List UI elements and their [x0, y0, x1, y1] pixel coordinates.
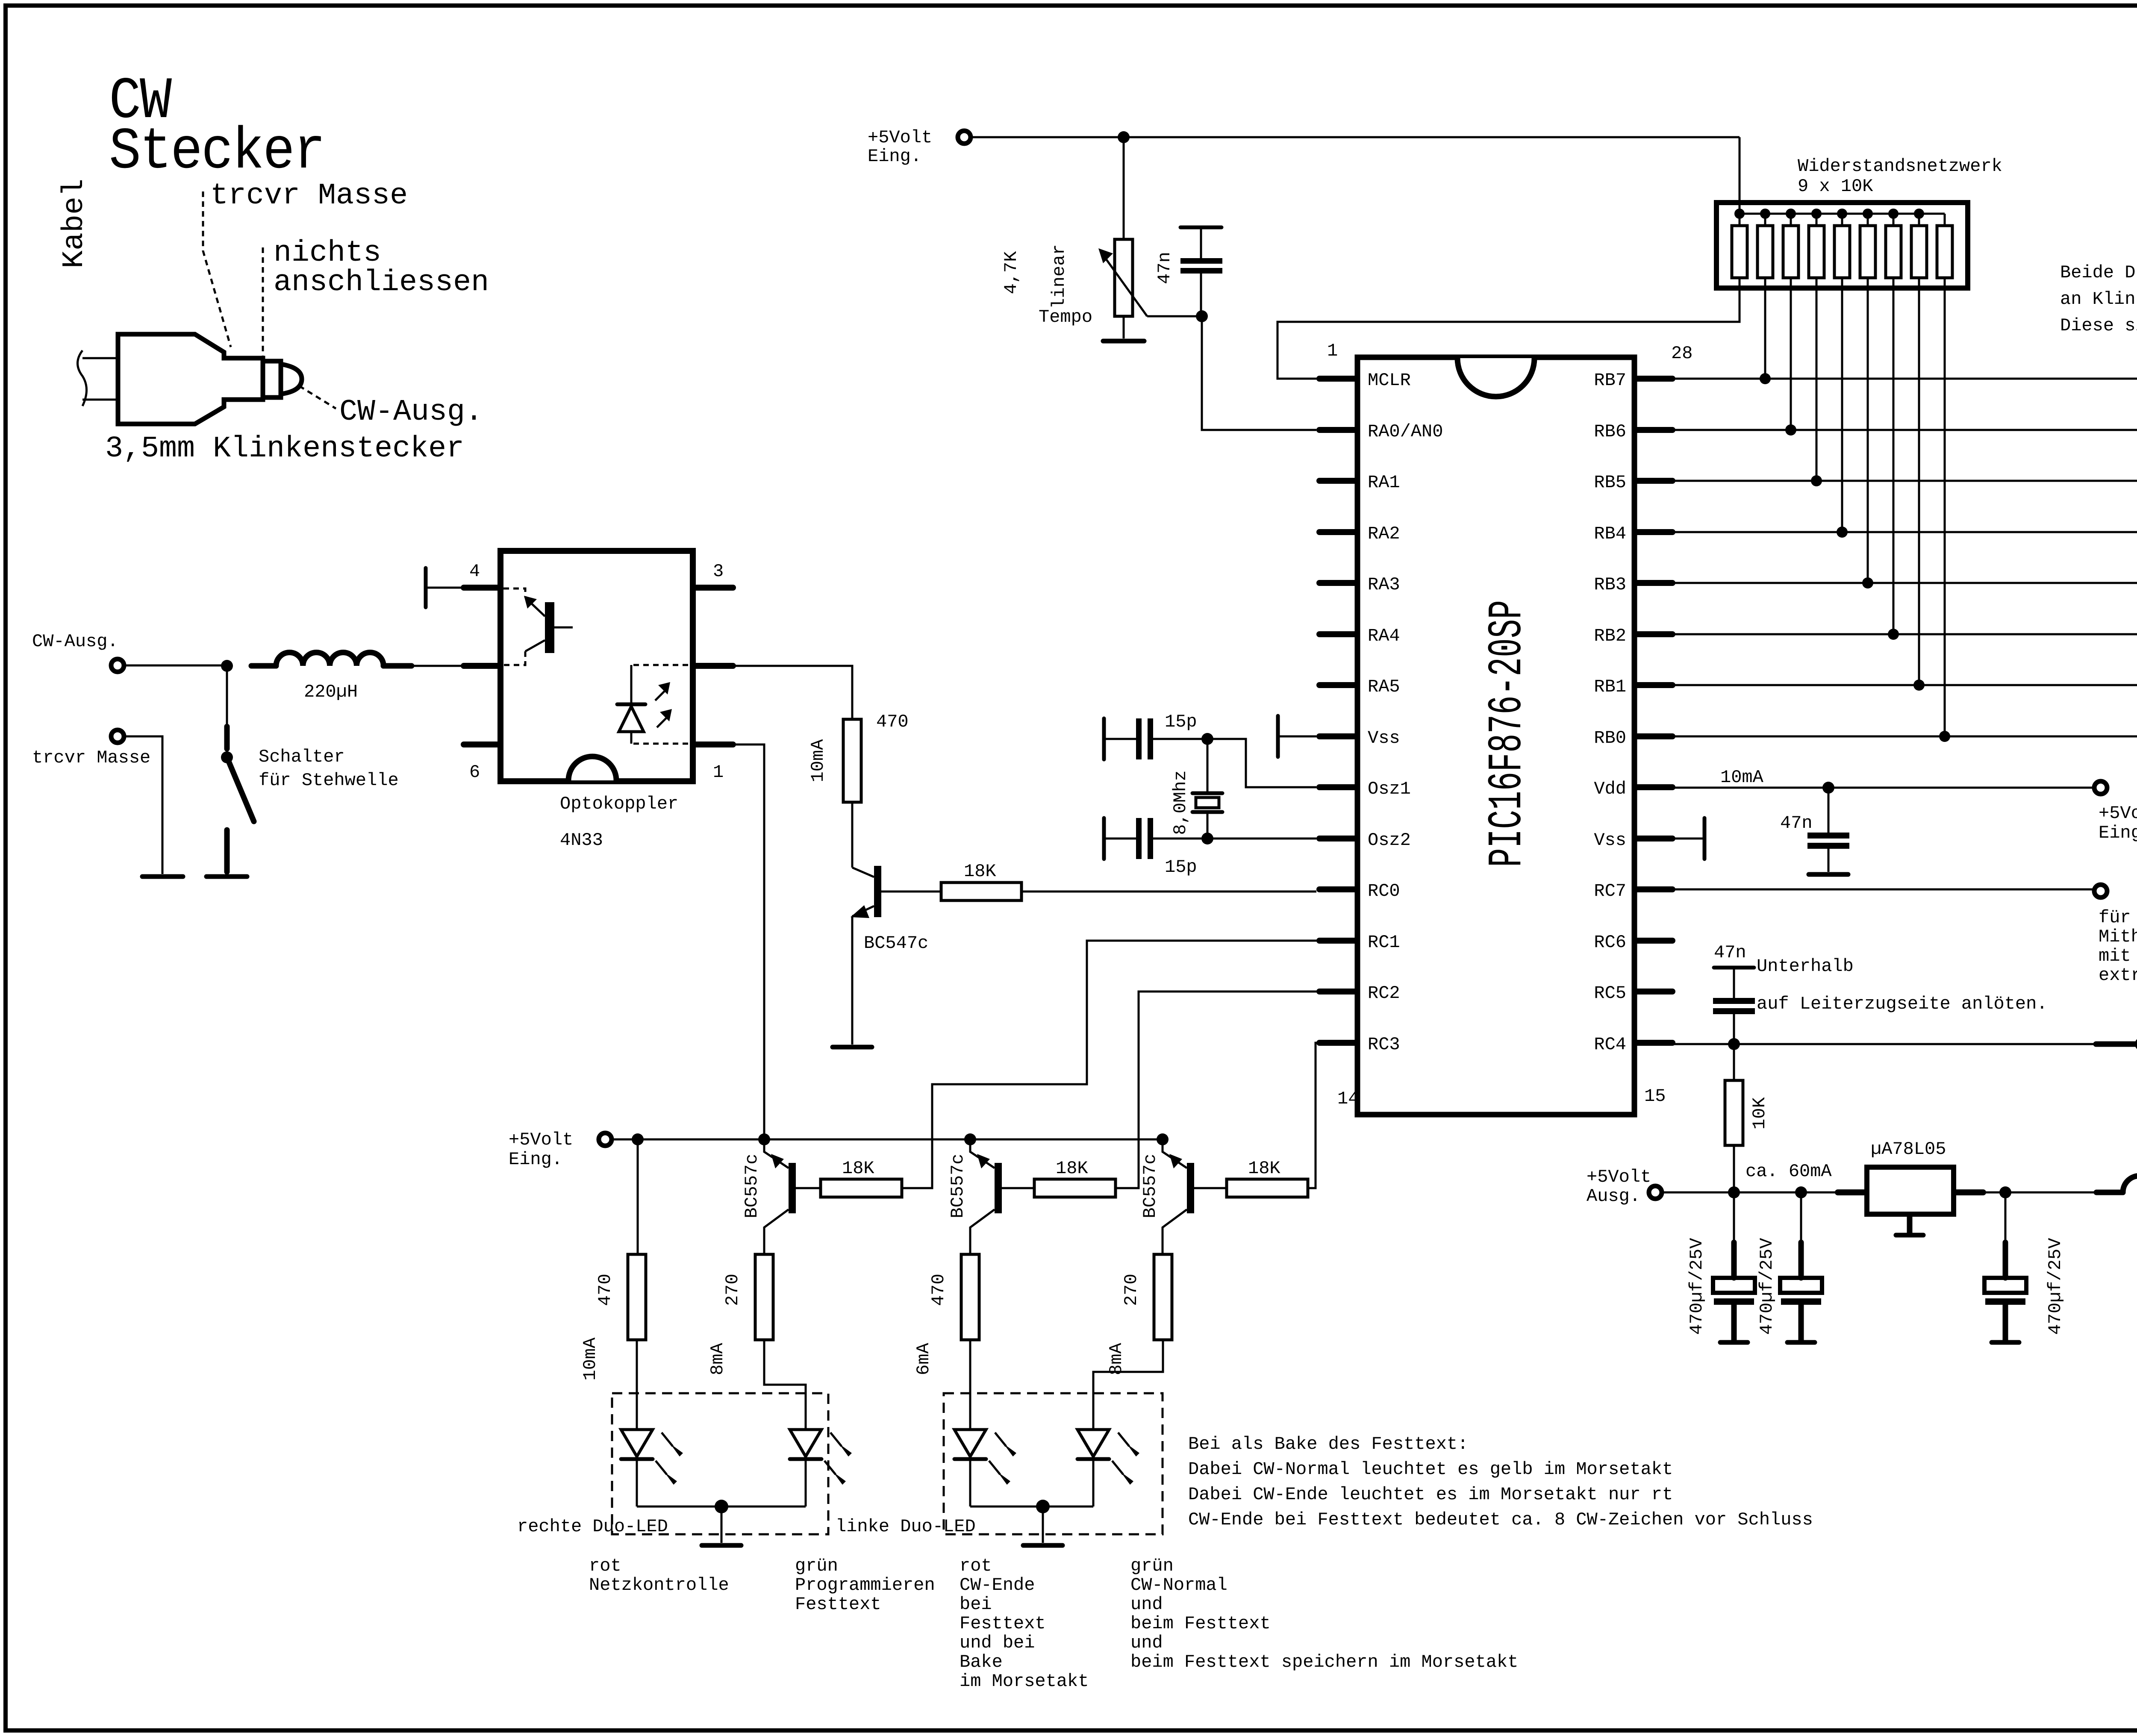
- wire RB line to inductor y=1006: [1672, 429, 2137, 431]
- svg-text:RB5: RB5: [1594, 472, 1626, 493]
- pin stub left RA5: [1319, 682, 1355, 688]
- resistor RN1-1 body: [1732, 226, 1747, 278]
- wire RN1-8 to RB1 line: [1918, 278, 1920, 685]
- switch S2 pivot dot: [2135, 1037, 2137, 1051]
- svg-text:470: 470: [876, 712, 909, 732]
- wire R10 to LED4 jog: [1093, 1340, 1163, 1430]
- capacitor C2 plate A: [1136, 718, 1142, 759]
- pin stub left RA3: [1319, 580, 1355, 586]
- svg-text:+5Volt: +5Volt: [868, 127, 932, 148]
- svg-text:ca. 60mA: ca. 60mA: [1746, 1161, 1832, 1182]
- svg-text:BC557c: BC557c: [1140, 1153, 1160, 1218]
- node dot RB2: [1888, 629, 1899, 640]
- switch S1 blade: [227, 757, 254, 821]
- resistor 18K body (Q3 base): [1034, 1179, 1116, 1197]
- pin stub right RB43: [1637, 529, 1672, 535]
- capacitor C5 47n ground bar: [1714, 966, 1754, 970]
- cable break squiggle: [78, 350, 87, 406]
- transistor Q3 base bar: [995, 1163, 1002, 1213]
- transistor Q4 base bar: [1187, 1163, 1194, 1213]
- resistor 470 body (LED): [961, 1254, 979, 1340]
- crystal X1 top lead: [1207, 739, 1209, 792]
- pin stub right RB61: [1637, 427, 1672, 433]
- node rail 10K junction: [1728, 1186, 1740, 1198]
- dashed box rechte Duo-LED: [612, 1393, 828, 1534]
- node dot RB6: [1785, 424, 1796, 435]
- ground C8: [1992, 1340, 2019, 1345]
- svg-text:extra Schaltung: extra Schaltung: [2099, 965, 2137, 986]
- wire RB2 to Text4 switch: [1672, 633, 2137, 636]
- wire 10K to +5V Ausg rail: [1733, 1145, 1735, 1192]
- svg-text:Widerstandsnetzwerk: Widerstandsnetzwerk: [1798, 156, 2002, 177]
- node crystal top: [1201, 733, 1213, 745]
- wire Vss left to ground: [1279, 736, 1316, 738]
- svg-text:Schalter: Schalter: [259, 747, 345, 767]
- svg-text:grün: grün: [795, 1556, 838, 1576]
- node rechte cathode dot: [715, 1500, 728, 1513]
- svg-text:Eing.: Eing.: [868, 146, 921, 167]
- diode LED1 rot cathode bar: [621, 1457, 653, 1461]
- wire R5 to LED1: [636, 1340, 638, 1430]
- wire rail to R5 470: [637, 1139, 639, 1254]
- svg-text:mit: mit: [2099, 946, 2131, 966]
- LED light arrows: [655, 691, 665, 700]
- optocoupler U2 4N33 box: [500, 551, 693, 781]
- transistor Q1 emitter diagonal: [852, 906, 874, 916]
- wire RN1-7 to RB2 line: [1893, 278, 1895, 634]
- svg-text:Vss: Vss: [1594, 830, 1626, 850]
- capacitor C8 bottom stem: [2003, 1305, 2008, 1341]
- wire RB0 to Text6 switch: [1672, 736, 2137, 738]
- svg-text:6: 6: [469, 762, 480, 783]
- jack cable leads: [82, 358, 118, 400]
- transistor Q2 base bar: [789, 1163, 796, 1213]
- resistor RN1-6 body: [1860, 226, 1875, 278]
- svg-text:270: 270: [1121, 1274, 1142, 1306]
- terminal Mithoerton: [2094, 885, 2107, 897]
- wire RB4 to Text2 switch: [1672, 531, 2137, 533]
- transistor Q1 base bar: [874, 866, 881, 917]
- capacitor C8 top stem: [2003, 1242, 2008, 1278]
- transistor Q1 emitter wire: [851, 916, 854, 1045]
- resistor 18K body (Q4 base): [1227, 1179, 1308, 1197]
- svg-text:18K: 18K: [842, 1158, 874, 1179]
- resistor R2 470 body: [843, 719, 861, 802]
- resistor RN1-7 body: [1886, 226, 1901, 278]
- svg-text:Bake: Bake: [960, 1652, 1003, 1672]
- svg-text:Dabei CW-Ende leuchtet es im M: Dabei CW-Ende leuchtet es im Morsetakt n…: [1188, 1484, 1673, 1505]
- wire RC7 to Mithoerton terminal: [1672, 889, 2094, 891]
- capacitor C3 stem: [1106, 838, 1136, 840]
- svg-text:RA4: RA4: [1368, 626, 1400, 646]
- svg-text:BC547c: BC547c: [864, 933, 928, 953]
- leader dashed nichts anschliessen: [262, 247, 264, 358]
- diode LED2 gruen cathode bar: [790, 1457, 821, 1461]
- svg-text:im Morsetakt: im Morsetakt: [960, 1671, 1089, 1692]
- svg-text:9 x 10K: 9 x 10K: [1798, 176, 1873, 197]
- svg-text:anschliessen: anschliessen: [274, 266, 489, 300]
- wire R8 to LED3: [969, 1340, 971, 1430]
- pin stub left RA1: [1319, 478, 1355, 484]
- pin stub left Osz2: [1319, 836, 1355, 842]
- ground C6: [1720, 1340, 1748, 1345]
- resistor 470 body (LED): [628, 1254, 646, 1340]
- diode LED1 rot light arrow 1: [662, 1433, 673, 1446]
- ground C4: [1809, 872, 1848, 877]
- wire RN1-9 top: [1944, 214, 1946, 226]
- svg-text:MCLR: MCLR: [1368, 370, 1411, 391]
- svg-text:Ausg.: Ausg.: [1587, 1186, 1640, 1206]
- node bus dot 8: [1914, 209, 1924, 219]
- pin 2 stub: [464, 663, 500, 669]
- ground linke Duo-LED: [1023, 1543, 1063, 1548]
- svg-text:PIC16F876-20SP: PIC16F876-20SP: [1481, 600, 1535, 867]
- svg-text:beim Festtext: beim Festtext: [1130, 1613, 1271, 1634]
- wire RN1-3 to RB6 line: [1790, 278, 1792, 430]
- svg-text:+5Volt: +5Volt: [1587, 1167, 1651, 1187]
- svg-text:3: 3: [713, 561, 724, 582]
- IC U1 notch: [1457, 358, 1534, 397]
- pin stub right RC710: [1637, 886, 1672, 892]
- svg-text:8,0Mhz: 8,0Mhz: [1170, 770, 1191, 835]
- svg-text:Dabei CW-Normal leuchtet es ge: Dabei CW-Normal leuchtet es gelb im Mors…: [1188, 1459, 1673, 1480]
- capacitor C4 47n stem: [1828, 788, 1830, 833]
- capacitor C5 wire to RC4: [1733, 1014, 1735, 1044]
- svg-text:RB0: RB0: [1594, 728, 1626, 748]
- potentiometer P1 4,7K body: [1115, 239, 1133, 316]
- svg-text:BC557c: BC557c: [948, 1153, 968, 1218]
- wire RN1-1 bottom to MCLR: [1277, 278, 1740, 379]
- terminal CW-Ausg.: [111, 659, 124, 672]
- node Vdd cap junction: [1822, 782, 1834, 794]
- svg-text:Kabel: Kabel: [58, 179, 91, 268]
- node +5V rail emitter dot Q3: [964, 1133, 976, 1145]
- svg-text:RC1: RC1: [1368, 932, 1400, 953]
- regulator U3 uA78L05 left stub: [1838, 1189, 1864, 1195]
- svg-text:18K: 18K: [1056, 1158, 1088, 1179]
- svg-text:15p: 15p: [1165, 712, 1197, 732]
- svg-text:+5Volt: +5Volt: [2099, 803, 2137, 824]
- phototransistor base bar: [545, 602, 554, 653]
- regulator U3 body: [1867, 1167, 1954, 1214]
- svg-text:Osz1: Osz1: [1368, 779, 1411, 799]
- wire RN1-5 top: [1841, 214, 1843, 226]
- svg-text:trcvr Masse: trcvr Masse: [32, 747, 150, 768]
- svg-text:rot: rot: [589, 1556, 621, 1576]
- resistor RN1-4 body: [1809, 226, 1824, 278]
- switch S1 fixed bar: [224, 727, 230, 749]
- phototransistor collector: [525, 640, 545, 651]
- transistor Q1 BC547c collector diagonal: [852, 868, 874, 877]
- capacitor C5 plate A: [1713, 998, 1755, 1004]
- svg-text:RC0: RC0: [1368, 881, 1400, 901]
- svg-text:RA0/AN0: RA0/AN0: [1368, 421, 1443, 442]
- node bus dot 1: [1734, 209, 1745, 219]
- regulator U3 ground stem: [1907, 1217, 1913, 1233]
- pin stub right Vss9: [1637, 836, 1672, 842]
- wire junction to potentiometer: [1123, 137, 1125, 239]
- capacitor C8 470uf wire: [2005, 1192, 2007, 1242]
- capacitor C7 plate A: [1780, 1278, 1822, 1293]
- phototransistor emitter dashed wire: [503, 588, 525, 597]
- wire base to 18K: [881, 891, 941, 893]
- terminal trcvr Masse: [111, 730, 124, 743]
- pin stub right RB16: [1637, 682, 1672, 688]
- node dot RB5: [1811, 475, 1822, 486]
- ground potentiometer: [1103, 339, 1144, 344]
- svg-text:linke Duo-LED: linke Duo-LED: [836, 1516, 976, 1537]
- svg-text:14: 14: [1337, 1089, 1359, 1109]
- svg-text:Vdd: Vdd: [1594, 779, 1626, 799]
- node junction at potentiometer: [1118, 131, 1130, 143]
- svg-text:10mA: 10mA: [1720, 767, 1764, 788]
- wire Q4 base to 18K: [1194, 1187, 1227, 1189]
- wire node to Osz1: [1207, 739, 1316, 787]
- potentiometer wiper arrow: [1106, 259, 1147, 316]
- resistor RN1-9 body: [1937, 226, 1952, 278]
- svg-text:rechte Duo-LED: rechte Duo-LED: [517, 1516, 668, 1537]
- diode LED2 gruen light arrow 2: [824, 1461, 836, 1474]
- svg-text:470µf/25V: 470µf/25V: [1687, 1238, 1707, 1335]
- wire R6 to LED2 jog: [764, 1340, 806, 1430]
- node +5V rail emitter dot Q2: [758, 1133, 770, 1145]
- svg-text:auf Leiterzugseite anlöten.: auf Leiterzugseite anlöten.: [1757, 994, 2048, 1014]
- svg-text:470: 470: [928, 1274, 949, 1306]
- svg-text:und bei: und bei: [960, 1633, 1035, 1653]
- svg-text:CW-Ende bei Festtext bedeutet: CW-Ende bei Festtext bedeutet ca. 8 CW-Z…: [1188, 1509, 1813, 1530]
- wire RB3 to Text3 switch: [1672, 582, 2137, 584]
- pin stub right RB52: [1637, 478, 1672, 484]
- node dot RB1: [1913, 680, 1925, 691]
- capacitor C2 stem: [1106, 738, 1136, 740]
- svg-text:RB2: RB2: [1594, 626, 1626, 646]
- diode LED4 gruen light arrow 2: [1112, 1461, 1123, 1474]
- svg-text:und: und: [1130, 1594, 1163, 1615]
- svg-text:470µf/25V: 470µf/25V: [1757, 1238, 1777, 1335]
- resistor 18K body (Q2 base): [821, 1179, 902, 1197]
- pin stub right RC512: [1637, 989, 1672, 995]
- capacitor C5 stem: [1733, 969, 1735, 998]
- wire RN1-9 to RB0 line: [1944, 278, 1946, 736]
- ground switch S1: [206, 874, 247, 879]
- diode LED4 gruen cathode bar: [1077, 1457, 1109, 1461]
- capacitor C6 plate A: [1713, 1278, 1755, 1293]
- wire RN1-6 to RB3 line: [1867, 278, 1869, 583]
- crystal X1 bottom lead: [1207, 813, 1209, 839]
- diode LED3 rot light arrow 1: [995, 1433, 1006, 1446]
- svg-text:Stecker: Stecker: [109, 119, 324, 185]
- svg-text:RC2: RC2: [1368, 983, 1400, 1003]
- pin stub left Vss: [1319, 733, 1355, 739]
- wire RN1-6 top: [1867, 214, 1869, 226]
- LED cathode stem: [630, 665, 633, 703]
- wire pin4 to ground bar: [427, 587, 464, 589]
- wire resistor to collector: [851, 802, 854, 868]
- svg-text:10mA: 10mA: [580, 1337, 600, 1381]
- node dot RB7: [1760, 373, 1771, 384]
- LED anode stem: [630, 732, 633, 744]
- wire +5V into network common: [1739, 137, 1741, 226]
- diode LED1 rot triangle: [621, 1430, 653, 1456]
- wire +5V LED rail: [612, 1139, 1163, 1141]
- node rail cap3 junction: [1999, 1186, 2011, 1198]
- resistor R4 10K wire from RC4: [1733, 1044, 1735, 1080]
- inductor L4 220uH stubs: [2096, 1190, 2137, 1195]
- ground rechte Duo-LED: [702, 1543, 741, 1548]
- diode LED2 gruen cathode wire: [805, 1461, 807, 1506]
- capacitor C7 470uf wire: [1800, 1192, 1802, 1242]
- svg-text:beim Festtext speichern im Mor: beim Festtext speichern im Morsetakt: [1130, 1652, 1518, 1672]
- switch S1 lower contact: [224, 830, 230, 872]
- wire RB1 to Text5 switch: [1672, 684, 2137, 686]
- pin 6 stub: [464, 741, 500, 747]
- svg-text:RB4: RB4: [1594, 524, 1626, 544]
- node bus dot 2: [1760, 209, 1770, 219]
- diode LED1 rot light arrow 2: [656, 1461, 667, 1474]
- ground C7: [1787, 1340, 1815, 1345]
- transistor Q3 collector: [970, 1209, 995, 1254]
- switch S2 Programmier stub: [2096, 1042, 2135, 1047]
- resistor network RN1 box: [1716, 203, 1968, 288]
- pin stub left RC2: [1319, 989, 1355, 995]
- svg-text:Eing.: Eing.: [2099, 823, 2137, 843]
- svg-text:28: 28: [1671, 343, 1693, 364]
- wire potentiometer bottom: [1123, 316, 1125, 338]
- svg-text:Mithörton: Mithörton: [2099, 927, 2137, 947]
- pin 1 stub: [693, 741, 733, 747]
- svg-text:für Stehwelle: für Stehwelle: [259, 770, 399, 791]
- svg-text:470: 470: [595, 1274, 615, 1306]
- node bus dot 6: [1863, 209, 1873, 219]
- switch S1 pivot dot: [221, 751, 233, 763]
- resistor R3 18K body: [941, 883, 1021, 900]
- svg-text:Optokoppler: Optokoppler: [560, 794, 678, 814]
- pin stub left RC3: [1319, 1040, 1355, 1046]
- node RC4 junction: [1728, 1038, 1740, 1050]
- node bus dot 3: [1786, 209, 1796, 219]
- wire C1 to wiper node: [1200, 274, 1202, 316]
- svg-text:Eing.: Eing.: [509, 1149, 562, 1170]
- transistor Q3 emitter arrow: [977, 1154, 990, 1168]
- capacitor C3 15p ground T-bar: [1102, 818, 1106, 859]
- ground Q1 emitter: [833, 1045, 872, 1050]
- svg-text:Bei als Bake des Festtext:: Bei als Bake des Festtext:: [1188, 1434, 1468, 1454]
- connector J1 3,5mm jack plug body: [118, 334, 263, 424]
- node wiper junction: [1196, 310, 1208, 322]
- svg-text:RA2: RA2: [1368, 524, 1400, 544]
- diode LED4 gruen triangle: [1077, 1430, 1109, 1456]
- svg-text:Festtext: Festtext: [960, 1613, 1046, 1634]
- LED dashed enclosure: [631, 665, 688, 744]
- svg-text:CW-Normal: CW-Normal: [1130, 1575, 1227, 1595]
- jack ring segment: [263, 361, 281, 397]
- svg-text:8mA: 8mA: [1106, 1342, 1127, 1375]
- pin stub right RB34: [1637, 580, 1672, 586]
- resistor RN1-5 body: [1834, 226, 1850, 278]
- svg-text:RB7: RB7: [1594, 370, 1626, 391]
- svg-text:linear: linear: [1049, 244, 1069, 309]
- node bus dot 5: [1837, 209, 1847, 219]
- wire RN1-3 top: [1790, 214, 1792, 226]
- diode LED3 rot cathode wire: [969, 1461, 971, 1506]
- wire linke cathode to ground: [1042, 1506, 1044, 1543]
- capacitor C3 plate B: [1148, 818, 1153, 859]
- svg-text:RA1: RA1: [1368, 472, 1400, 493]
- diode LED4 gruen cathode wire: [1092, 1461, 1095, 1506]
- svg-text:47n: 47n: [1714, 942, 1746, 963]
- node rail cap2 junction: [1795, 1186, 1807, 1198]
- svg-text:Vss: Vss: [1368, 728, 1400, 748]
- pin stub right RB07: [1637, 733, 1672, 739]
- ground regulator: [1896, 1233, 1923, 1238]
- svg-text:trcvr Masse: trcvr Masse: [210, 179, 408, 213]
- wire rechte cathode to ground: [721, 1506, 723, 1543]
- wire RN1-4 top: [1816, 214, 1818, 226]
- pin stub left RA2: [1319, 529, 1355, 535]
- wire Q2 base to 18K: [796, 1187, 821, 1189]
- svg-text:an Klinkenbuchse anlöten.: an Klinkenbuchse anlöten.: [2060, 289, 2137, 309]
- svg-text:CW-Ausg.: CW-Ausg.: [32, 631, 118, 652]
- wire Q3 base to 18K: [1002, 1187, 1034, 1189]
- dashed box linke Duo-LED: [944, 1393, 1163, 1534]
- svg-text:RB6: RB6: [1594, 421, 1626, 442]
- inductor L1 220uH humps: [276, 653, 383, 666]
- pin stub left RA0-AN0: [1319, 427, 1355, 433]
- diode LED3 rot light arrow 2: [989, 1461, 1000, 1474]
- svg-text:47n: 47n: [1780, 813, 1813, 833]
- pin 4 stub: [464, 585, 500, 591]
- capacitor C1 plate B: [1180, 268, 1222, 274]
- svg-text:6mA: 6mA: [913, 1342, 934, 1375]
- regulator U3 right stub: [1956, 1189, 1983, 1195]
- wire regulator to inductor: [1983, 1192, 2096, 1194]
- resistor RN1-2 body: [1757, 226, 1773, 278]
- jack tip: [281, 364, 302, 394]
- wire trcvr Masse to ground: [124, 736, 162, 874]
- svg-text:RA3: RA3: [1368, 574, 1400, 595]
- svg-text:Festtext: Festtext: [795, 1594, 881, 1615]
- ground trcvr Masse: [142, 874, 183, 879]
- wire RC3 to 18K base R9: [1304, 1043, 1319, 1188]
- pin stub right RC413: [1637, 1040, 1672, 1046]
- node rail to R5 470 dot: [632, 1133, 644, 1145]
- svg-text:220µH: 220µH: [304, 682, 358, 702]
- svg-text:Osz2: Osz2: [1368, 830, 1411, 850]
- wire linke LED cathodes join: [970, 1506, 1093, 1508]
- node bus dot 7: [1888, 209, 1899, 219]
- capacitor C6 plate B: [1714, 1298, 1754, 1305]
- svg-text:47n: 47n: [1154, 252, 1175, 284]
- capacitor C6 bottom stem: [1731, 1305, 1737, 1341]
- wire RN1-2 top: [1764, 214, 1766, 226]
- svg-text:10mA: 10mA: [808, 739, 828, 783]
- resistor RN1-3 body: [1783, 226, 1798, 278]
- pin stub left RC0: [1319, 886, 1355, 892]
- diode LED3 rot triangle: [954, 1430, 986, 1456]
- node dot RB0: [1939, 731, 1950, 742]
- node bus dot 4: [1811, 209, 1822, 219]
- svg-text:RB1: RB1: [1594, 677, 1626, 697]
- wire RN1-2 to RB7 line: [1764, 278, 1766, 379]
- phototransistor emitter arrow: [529, 601, 545, 616]
- svg-text:3,5mm Klinkenstecker: 3,5mm Klinkenstecker: [105, 432, 464, 466]
- svg-text:für: für: [2099, 907, 2131, 928]
- resistor R4 10K body: [1725, 1080, 1743, 1145]
- capacitor C1 47n ground bar: [1180, 226, 1222, 230]
- wire C2 to crystal node: [1153, 738, 1207, 740]
- svg-text:nichts: nichts: [274, 236, 381, 270]
- inductor L1 220uH stubs: [251, 663, 412, 669]
